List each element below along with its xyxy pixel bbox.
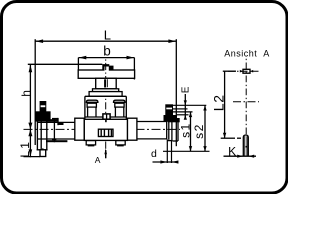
svg-text:b: b — [103, 44, 111, 59]
view A direction arrow — [105, 150, 107, 158]
flange bottom plug — [40, 150, 46, 157]
svg-text:L1: L1 — [18, 140, 32, 158]
L1 bottom arrow — [29, 149, 33, 156]
stem stub into body — [105, 119, 107, 122]
h top arrow — [29, 65, 33, 73]
svg-text:Ansicht A: Ansicht A — [224, 48, 270, 58]
dimension s1 — [190, 112, 192, 151]
svg-text:E: E — [180, 86, 191, 93]
svg-text:h: h — [19, 90, 33, 97]
svg-text:s1: s1 — [179, 122, 193, 137]
packing nut below body center — [98, 129, 113, 136]
valve body block — [84, 119, 127, 140]
bottom bolt right — [116, 141, 125, 145]
handle bar — [78, 70, 134, 78]
h top extension line to cap — [28, 63, 103, 65]
view A horizontal centerline mid — [233, 101, 259, 103]
view A stem element — [243, 135, 248, 156]
right bonnet bolt — [125, 96, 127, 119]
right end fitting — [168, 118, 180, 122]
bottom bolt left — [86, 141, 95, 145]
dimension b — [78, 58, 134, 80]
pipe horizontal centerline — [24, 128, 181, 130]
bleed screw base nut on flange — [35, 111, 51, 121]
dimension L — [35, 39, 176, 146]
pipe left segment — [37, 122, 75, 139]
svg-text:s2: s2 — [192, 123, 206, 138]
neck slot marks — [104, 79, 106, 87]
left bonnet bolt — [84, 96, 86, 119]
dimension s2 — [204, 105, 206, 151]
left union nut — [75, 118, 84, 140]
h bottom arrow at centerline — [28, 123, 32, 130]
svg-text:A: A — [95, 155, 101, 165]
handle cap nut — [102, 64, 113, 70]
stem vertical centerline — [105, 59, 107, 158]
L1 top arrow at centerline — [28, 129, 32, 136]
L1 bottom extension line — [24, 156, 41, 158]
collar end face — [57, 118, 59, 125]
dimension E — [184, 94, 186, 119]
h / L1 shared dimension line — [29, 64, 31, 157]
right bleed screw base — [164, 115, 178, 122]
right union nut — [127, 118, 136, 140]
view A vertical centerline — [245, 59, 247, 135]
bonnet base strip — [85, 96, 126, 117]
bonnet neck — [96, 78, 117, 89]
bonnet lower plate — [89, 92, 122, 97]
svg-text:d: d — [151, 148, 157, 160]
view A crosshair box — [243, 69, 250, 73]
extension lines right side — [163, 105, 210, 151]
weld mark — [58, 122, 64, 125]
bleed screw head (left) — [40, 101, 47, 112]
border frame — [2, 2, 288, 194]
hub face — [53, 118, 55, 142]
dimension L2 — [221, 71, 241, 138]
dimension K — [224, 155, 257, 157]
right bleed screw head — [165, 104, 173, 115]
svg-text:L: L — [104, 28, 111, 43]
svg-text:K: K — [228, 144, 236, 158]
stem seal box — [103, 114, 110, 119]
bonnet upper plate — [93, 89, 119, 92]
view A horizontal dash-dot through box — [228, 70, 259, 72]
svg-text:L2: L2 — [211, 94, 227, 111]
pipe right segment — [137, 121, 167, 140]
left collar thick bands — [46, 119, 58, 122]
dimension d — [153, 140, 179, 164]
left flange plate — [37, 112, 48, 150]
